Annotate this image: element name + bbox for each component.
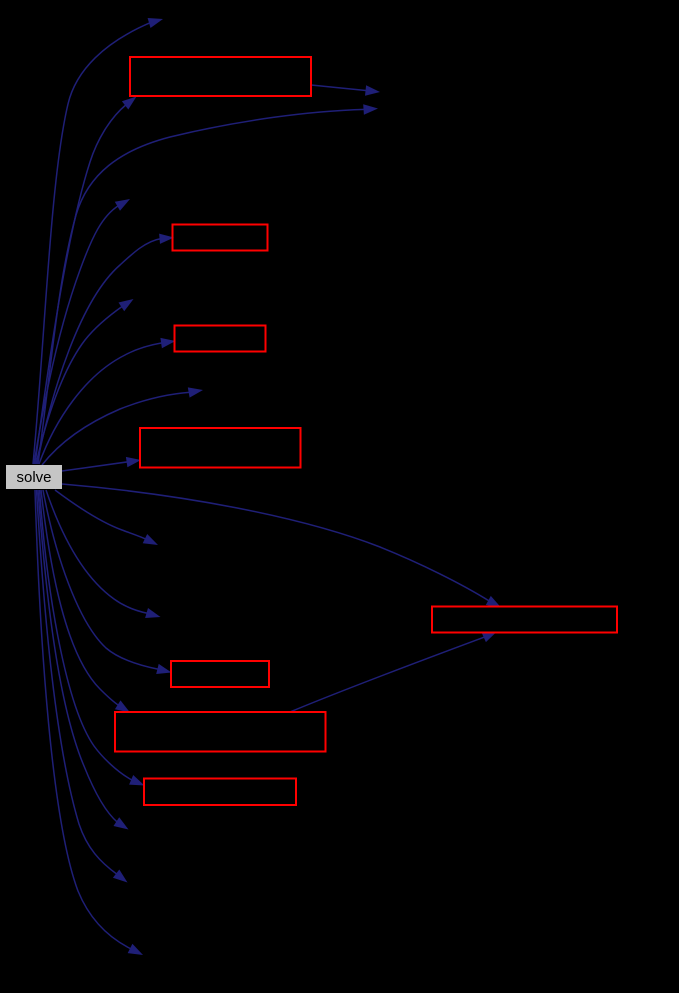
node box4 bbox=[140, 428, 301, 468]
wire solve->node_882 bbox=[37, 490, 118, 875]
arrowhead solve->node_540 bbox=[143, 534, 158, 545]
arrowhead solve->node_612 bbox=[145, 608, 160, 618]
arrowhead solve->box7 bbox=[115, 700, 130, 712]
wire solve->node_390 bbox=[42, 392, 190, 465]
arrowhead solve->box4 bbox=[126, 457, 141, 467]
wire solve->node_540 bbox=[55, 490, 146, 539]
wire solve->box4 bbox=[62, 462, 128, 471]
wire solve->node_955 bbox=[35, 490, 131, 949]
wire box1->node_right1 bbox=[311, 85, 367, 91]
arrowhead solve->node_right2 bbox=[363, 104, 378, 114]
node box6 bbox=[171, 661, 269, 687]
arrowhead solve->box8 bbox=[129, 775, 144, 786]
wire solve->box7 bbox=[41, 490, 119, 706]
node box8 bbox=[144, 779, 296, 806]
wire solve->box6 bbox=[43, 490, 159, 669]
arrowhead solve->node_203 bbox=[115, 199, 130, 211]
wire box7->box5 bbox=[290, 637, 485, 712]
arrowhead solve->node_390 bbox=[188, 387, 203, 397]
wire solve->node_203 bbox=[34, 206, 119, 465]
arrowhead solve->box6 bbox=[156, 664, 171, 674]
wire solve->node_303 bbox=[36, 306, 123, 464]
wire solve->box8 bbox=[40, 490, 133, 780]
arrowhead box7->box5 bbox=[482, 632, 497, 643]
arrowhead solve->box1 bbox=[122, 97, 137, 110]
arrowhead solve->node_882 bbox=[113, 870, 128, 883]
arrowhead solve->box3 bbox=[160, 338, 175, 348]
wire solve->node_right2 bbox=[38, 109, 365, 464]
wire solve->box5 bbox=[62, 484, 490, 601]
wire solve->node_612 bbox=[46, 490, 148, 613]
node box2 bbox=[173, 225, 268, 251]
wire solve->box3 bbox=[39, 343, 163, 464]
node box3 bbox=[175, 326, 266, 352]
svg-text:solve: solve bbox=[16, 469, 51, 486]
arrowhead solve->node_955 bbox=[128, 944, 143, 955]
node box1 bbox=[130, 57, 311, 96]
arrowhead solve->node_303 bbox=[119, 299, 134, 311]
wire solve->node_829 bbox=[38, 490, 118, 822]
arrowhead solve->box5 bbox=[486, 596, 501, 608]
arrowhead box1->node_right1 bbox=[365, 85, 380, 95]
node box7 bbox=[115, 712, 326, 752]
node solve bbox=[6, 465, 62, 489]
arrowhead solve->node_top bbox=[148, 18, 163, 28]
node box5 bbox=[432, 607, 617, 633]
wire solve->box2 bbox=[37, 239, 161, 464]
arrowhead solve->node_829 bbox=[114, 817, 129, 829]
wire solve->box1 bbox=[35, 105, 126, 465]
arrowhead solve->box2 bbox=[159, 234, 174, 244]
wire solve->node_top bbox=[33, 23, 151, 464]
